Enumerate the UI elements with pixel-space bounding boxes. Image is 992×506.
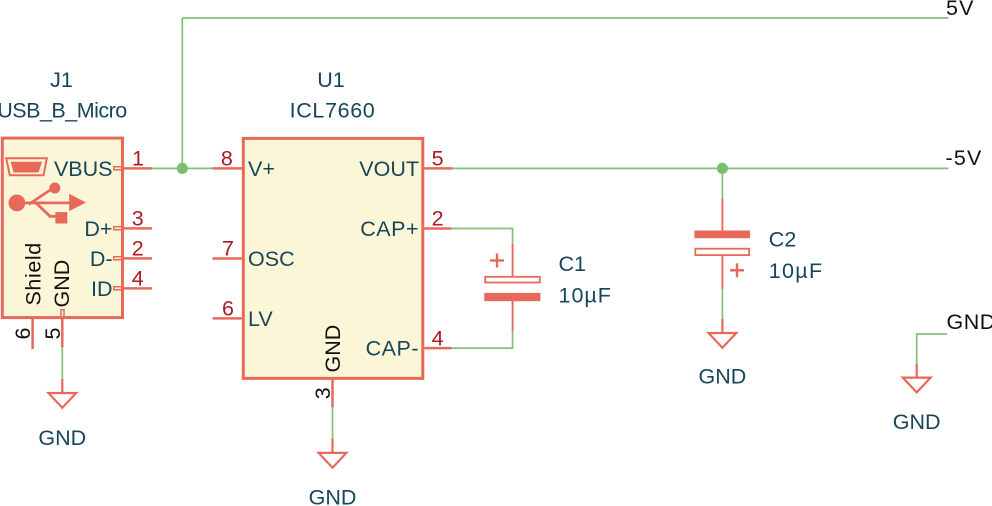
U1 pin 7 OSC	[213, 257, 242, 260]
wire 5V top horizontal	[182, 17, 948, 19]
svg-text:6: 6	[11, 327, 35, 339]
svg-text:2: 2	[132, 237, 144, 261]
svg-text:10µF: 10µF	[769, 259, 824, 283]
svg-text:3: 3	[132, 207, 144, 231]
C1 plus sign	[490, 254, 504, 268]
J1 USB receptacle trapezoid icon	[6, 158, 47, 175]
svg-text:ID: ID	[91, 277, 113, 301]
svg-text:GND: GND	[893, 410, 941, 434]
svg-text:2: 2	[432, 207, 444, 231]
J1 pin 4 ID	[114, 287, 122, 290]
svg-text:V+: V+	[248, 157, 275, 181]
svg-text:GND: GND	[50, 260, 74, 308]
ground symbol under U1	[331, 439, 333, 453]
svg-text:D+: D+	[84, 217, 112, 241]
capacitor C1 top lead	[512, 244, 514, 277]
svg-text:3: 3	[311, 387, 335, 399]
svg-text:CAP-: CAP-	[366, 337, 419, 361]
svg-text:-5V: -5V	[946, 146, 983, 170]
junction dot B (-5V / C2)	[717, 163, 728, 174]
svg-text:GND: GND	[321, 325, 345, 373]
U1 pin 4 CAP-	[424, 347, 451, 350]
wire C2 bottom to GND	[721, 289, 723, 318]
svg-text:4: 4	[432, 326, 444, 350]
capacitor C1 positive plate (hollow)	[485, 277, 540, 283]
ground symbol under C2	[721, 319, 723, 333]
wire 5V vertical drop to junction	[181, 18, 183, 168]
svg-text:VBUS: VBUS	[54, 157, 113, 181]
junction dot A (5V / VBUS)	[177, 163, 188, 174]
svg-text:LV: LV	[248, 307, 273, 331]
svg-text:C1: C1	[559, 252, 586, 276]
svg-text:1: 1	[132, 147, 144, 171]
svg-text:8: 8	[221, 147, 233, 171]
J1 pin 5 GND	[61, 310, 64, 317]
wire VBUS to V+	[152, 167, 213, 169]
capacitor C2 negative plate (solid)	[694, 231, 750, 239]
wire junction to C2 top	[721, 168, 723, 198]
svg-text:5V: 5V	[946, 0, 975, 20]
wire J1 pin5 to GND	[61, 347, 63, 379]
wire CAP- to C1 bottom	[452, 331, 513, 348]
J1 pin 6 Shield	[31, 319, 34, 349]
ground symbol right (GND label)	[916, 364, 918, 378]
capacitor C1 bottom lead	[512, 301, 514, 331]
svg-text:ICL7660: ICL7660	[290, 98, 376, 122]
capacitor C2 positive plate (hollow)	[695, 249, 749, 255]
svg-text:5: 5	[432, 147, 444, 171]
svg-text:CAP+: CAP+	[360, 217, 419, 241]
J1 pin 1 VBUS	[114, 167, 122, 170]
IC U1 body	[243, 138, 422, 378]
svg-text:GND: GND	[947, 310, 992, 334]
capacitor C2 bottom lead	[721, 256, 723, 289]
J1 pin 2 D-	[114, 257, 122, 260]
svg-text:GND: GND	[38, 426, 86, 450]
capacitor C2 top lead	[721, 199, 723, 232]
svg-text:J1: J1	[50, 68, 73, 92]
U1 pin 8 V+	[213, 167, 242, 170]
U1 pin 5 VOUT	[424, 167, 452, 170]
svg-text:D-: D-	[90, 247, 113, 271]
svg-text:10µF: 10µF	[559, 284, 612, 308]
svg-text:6: 6	[222, 297, 234, 321]
connector J1 body	[2, 138, 122, 318]
svg-text:GND: GND	[309, 485, 357, 506]
U1 pin 2 CAP+	[424, 227, 451, 230]
U1 pin 6 LV	[213, 317, 242, 320]
svg-text:5: 5	[41, 327, 65, 339]
svg-text:C2: C2	[769, 228, 796, 252]
svg-text:VOUT: VOUT	[359, 157, 419, 181]
J1 pin 3 D+	[114, 227, 122, 230]
capacitor C1 negative plate (solid)	[484, 293, 540, 301]
svg-text:U1: U1	[317, 68, 344, 92]
wire CAP+ to C1 top	[452, 229, 513, 245]
svg-text:Shield: Shield	[21, 242, 45, 305]
svg-text:4: 4	[132, 267, 144, 291]
svg-text:USB_B_Micro: USB_B_Micro	[0, 98, 127, 122]
svg-text:7: 7	[222, 237, 234, 261]
svg-text:GND: GND	[699, 364, 747, 388]
C2 plus sign	[730, 263, 744, 277]
wire GND label to symbol	[917, 334, 948, 364]
U1 pin 3 GND	[331, 380, 334, 408]
J1 USB trident icon	[9, 183, 87, 224]
wire U1 pin3 to GND	[332, 407, 334, 438]
wire VOUT to -5V	[453, 167, 949, 169]
svg-text:OSC: OSC	[248, 247, 295, 271]
ground symbol under J1	[61, 379, 63, 393]
